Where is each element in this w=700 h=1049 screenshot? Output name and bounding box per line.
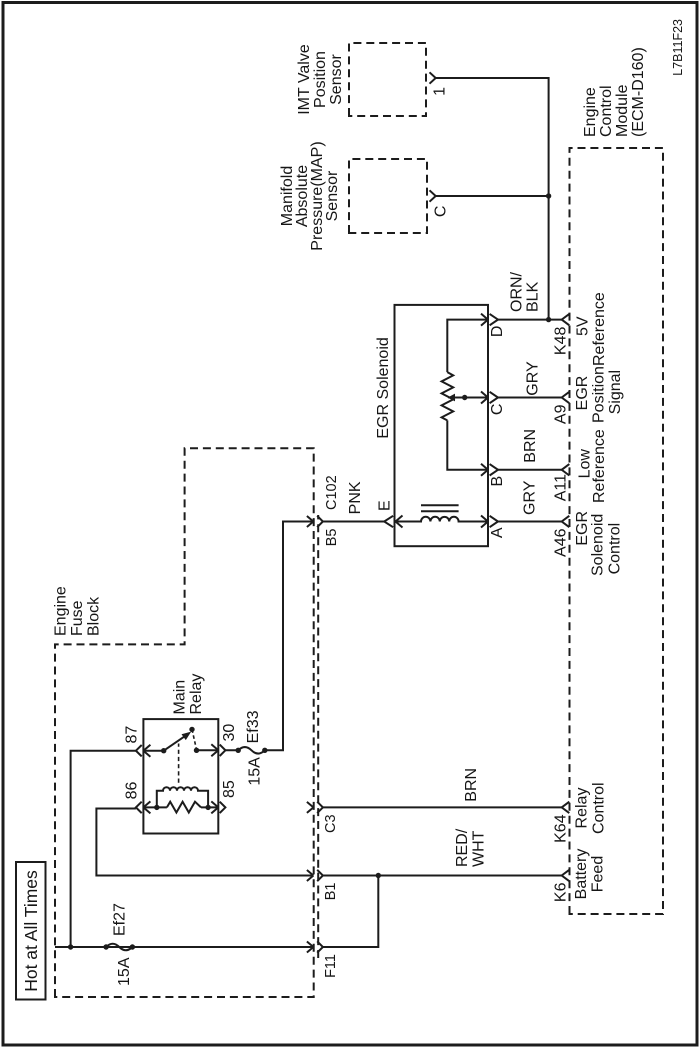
svg-text:EGR Solenoid: EGR Solenoid [375,337,392,438]
svg-text:Module: Module [614,84,631,137]
relay pin 30 connector [220,745,226,756]
svg-text:C102: C102 [324,475,340,510]
Main Relay box [143,719,218,833]
svg-text:Control: Control [591,782,608,834]
svg-text:Relay: Relay [574,788,591,829]
relay switch: 87 wire + movable contact arm [143,750,163,752]
svg-text:C: C [433,206,450,218]
svg-text:A9: A9 [553,404,570,424]
svg-text:K6: K6 [553,882,570,902]
EGR Solenoid box [395,305,489,546]
MAP sensor box [349,159,427,233]
ECM pin A9 connector [562,392,570,403]
svg-text:87: 87 [124,726,141,744]
EGR pin A connector [490,516,498,527]
wire: hot feed bus (Hot at All Times to F11) [55,946,313,948]
svg-text:EGR: EGR [574,511,591,546]
svg-text:30: 30 [221,724,238,742]
svg-text:L7B11F23: L7B11F23 [671,19,685,76]
svg-text:Reference: Reference [591,292,608,366]
EGR pin E connector [384,516,393,527]
svg-text:BLK: BLK [525,281,542,312]
svg-text:IMT Valve: IMT Valve [296,44,313,115]
label: Main Relay [172,674,205,715]
svg-text:EGR: EGR [574,376,591,411]
svg-text:Ef27: Ef27 [112,903,129,936]
pot wiper to pin C [448,397,488,399]
svg-text:Ef33: Ef33 [245,710,262,743]
wire: EGR B to ECM A11 (BRN) [498,469,562,471]
svg-text:Block: Block [86,596,103,636]
svg-text:B1: B1 [323,883,339,901]
junction: MAP sensor branch [546,193,551,198]
label: Engine Fuse Block [53,586,103,636]
pot lead to pin B [447,420,488,469]
fuse Ef27 15A [103,944,108,949]
junction: F11 wire joins B1-K6 wire [376,873,381,878]
wire: EGR A to ECM A46 (GRY) [498,521,562,523]
relay switch: dashed link to pin 30 contact [192,729,197,749]
svg-text:Engine: Engine [582,87,599,137]
coil core lines [421,505,459,511]
EGR solenoid coil winding [395,517,488,522]
MAP pin C connector [430,190,436,201]
svg-text:Relay: Relay [188,674,205,715]
svg-text:Position: Position [312,51,329,108]
svg-text:Control: Control [607,523,624,575]
svg-text:B: B [489,476,506,487]
svg-text:K64: K64 [553,814,570,843]
svg-text:5V: 5V [575,316,592,336]
ECM pin A46 connector [562,516,570,527]
connector face dashed line [317,515,319,958]
svg-text:Signal: Signal [607,370,624,414]
ECM pin K48 connector [562,314,570,325]
connector F11 at fuse block edge [307,942,314,953]
svg-text:BRN: BRN [463,768,480,802]
svg-text:K48: K48 [553,326,570,355]
wire: relay pin 87 branch [71,751,136,947]
relay coil winding [157,787,208,807]
svg-text:BRN: BRN [522,429,539,463]
label: RED/WHT [454,828,488,867]
wire: B1 to K6 (RED/WHT) [323,875,562,877]
relay coil resistor (zigzag) [167,802,201,813]
connector C3 at fuse block edge [307,802,314,813]
svg-text:Battery: Battery [573,849,590,900]
svg-text:D: D [489,326,506,338]
ECM pin A11 connector [562,464,570,475]
svg-text:Main: Main [172,680,189,715]
connector B5 / C102 at fuse block edge [307,516,314,527]
svg-text:GRY: GRY [522,480,539,515]
svg-text:Hot at All Times: Hot at All Times [21,870,41,992]
svg-text:15A: 15A [247,757,264,786]
Engine Control Module (ECM) box [570,148,664,914]
relay pin 86 connector [136,802,142,813]
wire: MAP sensor branch [436,195,549,197]
EGR pin A arrow (inside) [481,516,488,528]
svg-text:WHT: WHT [471,830,488,867]
wire: B5 to EGR solenoid pin E (PNK) [323,521,384,523]
fuse Ef33 15A (after relay pin 30) [225,522,313,751]
wire: EGR C to ECM A9 (GRY) [498,397,562,399]
svg-text:Engine: Engine [53,586,70,636]
svg-text:15A: 15A [116,957,133,986]
svg-text:Sensor: Sensor [328,53,345,104]
svg-text:E: E [377,500,394,511]
label: Manifold Absolute Pressure(MAP) Sensor [279,141,341,250]
svg-text:Position: Position [591,366,608,423]
svg-text:Control: Control [598,85,615,137]
IMT pin 1 connector [430,72,436,83]
svg-text:GRY: GRY [525,361,542,396]
svg-text:B5: B5 [324,529,340,547]
connector B1 at fuse block edge [307,870,314,881]
relay mechanical dashed link coil-armature [178,744,180,783]
junction: wiper dot [462,395,467,400]
wire: EGR D to ECM K48 (ORN/BLK) [498,319,562,321]
IMT valve position sensor box [349,43,426,116]
svg-text:ORN/: ORN/ [509,271,526,312]
ECM pin K64 connector [562,802,570,813]
junction: hot bus / relay 87 branch [68,944,73,949]
svg-text:Fuse: Fuse [69,600,86,636]
EGR position sensor potentiometer [442,372,454,420]
wire: relay 30 contact to pin 30 [197,749,219,751]
svg-text:RED/: RED/ [454,828,471,867]
pot lead to pin D [447,320,488,373]
ECM pin K6 connector [562,870,570,881]
svg-text:1: 1 [432,87,449,96]
Engine Fuse Block boundary (dashed) [55,448,314,997]
label: Engine Control Module (ECM-D160) [582,47,647,137]
svg-text:Solenoid: Solenoid [590,514,607,576]
EGR pin B connector [490,464,498,475]
svg-text:85: 85 [221,780,238,798]
node: Hot at All Times [16,862,46,1000]
relay pin 87 connector [136,745,142,756]
svg-text:A11: A11 [553,474,570,501]
svg-text:C3: C3 [323,814,339,833]
svg-text:A: A [489,527,506,538]
wire: 5V reference bus to sensors [436,78,549,320]
svg-text:A46: A46 [553,528,570,557]
wire: relay pin 86 to B1 [96,809,313,876]
label: IMT Valve Position Sensor [296,44,345,115]
svg-text:(ECM-D160): (ECM-D160) [630,47,647,137]
svg-text:PNK: PNK [347,481,364,514]
wire: C3 to K64 (BRN) [323,806,562,808]
EGR pin D connector [490,314,498,325]
junction: 5V reference bus on D wire [546,317,551,322]
relay pin 85 connector [220,802,226,813]
svg-text:86: 86 [124,782,141,800]
svg-text:Reference: Reference [591,429,608,503]
svg-text:C: C [489,404,506,416]
svg-text:Sensor: Sensor [324,170,341,221]
EGR pin C connector [490,392,498,403]
svg-text:F11: F11 [323,954,339,978]
svg-text:Feed: Feed [590,856,607,892]
relay coil circuit: 86-85 through wire [143,806,218,808]
wire: F11 to battery feed junction [323,876,378,948]
